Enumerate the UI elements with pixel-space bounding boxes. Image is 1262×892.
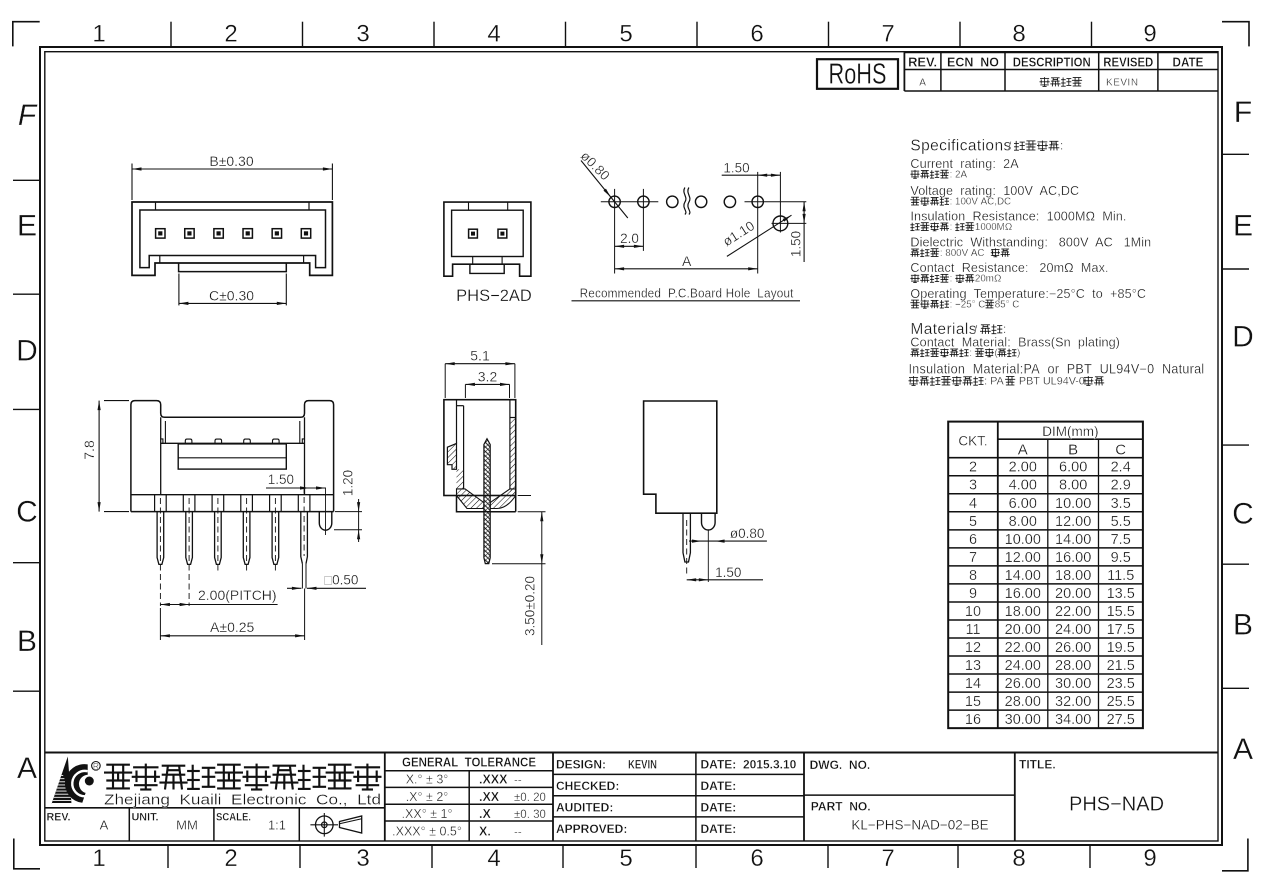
- phs-2ad pin squares: [469, 229, 478, 238]
- side view wall inner edges: [160, 417, 162, 494]
- svg-text:DATE:: DATE:: [701, 822, 737, 836]
- svg-text:UNIT.: UNIT.: [132, 812, 159, 824]
- dim 1.50 right vertical: [803, 202, 805, 262]
- svg-text:REV.: REV.: [908, 55, 937, 69]
- svg-text:): ): [1017, 348, 1020, 359]
- svg-text:23.5: 23.5: [1107, 676, 1135, 692]
- phs-2ad bottom tab: [470, 264, 504, 273]
- front view inner face with notched corners: [140, 210, 326, 268]
- svg-text:34.00: 34.00: [1055, 712, 1091, 728]
- svg-text:E: E: [17, 210, 37, 243]
- dim A±0.25: [159, 608, 161, 640]
- title column: [1014, 753, 1016, 842]
- dim A: [615, 268, 758, 270]
- side view pins 1-5: [157, 512, 164, 565]
- svg-text:28.00: 28.00: [1055, 658, 1091, 674]
- svg-text:5.1: 5.1: [470, 348, 490, 364]
- pcb hole2 vertical: [642, 189, 644, 251]
- CKT DIM table: [948, 422, 1143, 729]
- svg-text:C: C: [16, 496, 38, 529]
- right view body: [644, 401, 717, 513]
- side view latch bumps: [185, 439, 192, 443]
- dim C±0.30: [178, 274, 180, 306]
- section center pin crosshatched: [484, 439, 490, 564]
- svg-text:A±0.25: A±0.25: [210, 619, 254, 635]
- right view flat pin: [683, 513, 690, 562]
- svg-text:9: 9: [1143, 845, 1156, 872]
- svg-text:12: 12: [965, 640, 981, 656]
- svg-text:11.5: 11.5: [1107, 568, 1134, 584]
- svg-text:6: 6: [750, 21, 763, 48]
- svg-text:MM: MM: [176, 818, 198, 833]
- svg-text:D: D: [16, 335, 38, 368]
- top edge zone ticks: [170, 22, 172, 47]
- svg-text:DWG. NO.: DWG. NO.: [810, 758, 871, 772]
- svg-text:6: 6: [750, 845, 763, 872]
- title block frame: [45, 752, 1218, 754]
- svg-text:16.00: 16.00: [1005, 586, 1041, 602]
- svg-text:5.5: 5.5: [1111, 514, 1131, 530]
- svg-text::: :: [950, 222, 955, 233]
- svg-text:C: C: [1232, 498, 1254, 531]
- svg-text:4.00: 4.00: [1009, 478, 1037, 494]
- svg-text:PART NO.: PART NO.: [811, 799, 871, 813]
- svg-text:2: 2: [224, 845, 237, 872]
- svg-text:1: 1: [92, 845, 105, 872]
- svg-text:: 800V AC 1: : 800V AC 1: [940, 248, 996, 259]
- svg-text:1: 1: [92, 21, 105, 48]
- phs-2ad inner face: [452, 210, 524, 256]
- svg-text:±0. 20: ±0. 20: [514, 792, 546, 804]
- svg-text:PBT UL94V-0: PBT UL94V-0: [1016, 376, 1088, 388]
- svg-text:B±0.30: B±0.30: [209, 153, 253, 169]
- svg-text:Specifications: Specifications: [910, 138, 1011, 155]
- dwg/part no column: [803, 753, 805, 842]
- svg-text:DIM(mm): DIM(mm): [1042, 424, 1098, 439]
- svg-text:16.00: 16.00: [1055, 550, 1091, 566]
- side view wall lips: [164, 421, 166, 443]
- section lower block: [457, 496, 516, 512]
- side view tongue: [178, 444, 286, 469]
- first-angle projection symbol: [316, 816, 334, 834]
- pcb hole1 vertical: [614, 189, 616, 274]
- svg-text:CHECKED:: CHECKED:: [556, 779, 619, 793]
- svg-text:9.5: 9.5: [1111, 550, 1131, 566]
- svg-text:E: E: [1233, 210, 1253, 243]
- svg-text:6.00: 6.00: [1009, 496, 1037, 512]
- svg-text:A: A: [1018, 442, 1028, 459]
- section left wall lower hatch: [457, 469, 464, 489]
- svg-text:.X° ± 2°: .X° ± 2°: [406, 790, 449, 804]
- svg-text:1.50: 1.50: [715, 565, 741, 580]
- RoHS logo box: [817, 59, 898, 89]
- svg-text:±0. 30: ±0. 30: [514, 809, 546, 821]
- svg-text:12.00: 12.00: [1055, 514, 1091, 530]
- svg-text:32.00: 32.00: [1055, 694, 1091, 710]
- svg-text:20.00: 20.00: [1055, 586, 1091, 602]
- svg-text:15: 15: [965, 694, 981, 710]
- svg-text:1.50: 1.50: [723, 161, 749, 176]
- svg-text:REV.: REV.: [47, 812, 71, 824]
- svg-text:24.00: 24.00: [1005, 658, 1041, 674]
- svg-text:: PA: : PA: [984, 376, 1007, 388]
- front view top joint lines: [155, 202, 157, 210]
- svg-text:DATE: 2015.3.10: DATE: 2015.3.10: [701, 757, 797, 771]
- svg-text:A: A: [100, 818, 109, 833]
- svg-text:: 2A: : 2A: [950, 170, 968, 181]
- svg-text:SCALE.: SCALE.: [216, 812, 251, 824]
- svg-text:A: A: [1233, 733, 1253, 766]
- pcb crosshair hole 6: [745, 201, 807, 203]
- svg-text:2.0: 2.0: [620, 231, 639, 246]
- svg-text:15.5: 15.5: [1107, 604, 1135, 620]
- design/date column: [695, 753, 697, 842]
- svg-text:Operating Temperature:−25°C: Operating Temperature:−25°C to +85°C: [910, 287, 1146, 301]
- svg-text:8.00: 8.00: [1009, 514, 1037, 530]
- svg-text::: :: [1060, 141, 1063, 153]
- svg-text::: :: [969, 348, 974, 359]
- pcb crosshair lines through holes 1-2: [601, 201, 659, 203]
- svg-text:B: B: [1068, 442, 1078, 459]
- svg-text:14: 14: [965, 676, 981, 692]
- svg-text:8.00: 8.00: [1059, 478, 1087, 494]
- svg-text:85° C: 85° C: [995, 299, 1020, 310]
- phs-2ad outer silhouette: [444, 202, 531, 276]
- svg-text:30.00: 30.00: [1005, 712, 1041, 728]
- svg-text:TITLE.: TITLE.: [1019, 758, 1056, 772]
- front view outer silhouette: [132, 202, 332, 275]
- svg-text:Zhejiang Kuaili Electronic: Zhejiang Kuaili Electronic Co., Ltd: [104, 793, 381, 809]
- svg-text:3.50±0.20: 3.50±0.20: [523, 576, 538, 636]
- svg-text:14.00: 14.00: [1005, 568, 1041, 584]
- dim 1.50 top: [722, 174, 781, 176]
- bottom edge zone ticks: [167, 845, 169, 868]
- svg-text:.X: .X: [479, 807, 491, 821]
- svg-text:10: 10: [965, 604, 981, 620]
- svg-text:26.00: 26.00: [1005, 676, 1041, 692]
- svg-text:RoHS: RoHS: [829, 58, 887, 90]
- front view bottom rail ticks: [159, 256, 161, 264]
- svg-text:5: 5: [619, 845, 632, 872]
- svg-text:Contact Resistance: 20mΩ M: Contact Resistance: 20mΩ Max.: [910, 261, 1108, 275]
- svg-text:APPROVED:: APPROVED:: [556, 822, 627, 836]
- svg-text:28.00: 28.00: [1005, 694, 1041, 710]
- svg-text:1:1: 1:1: [268, 818, 286, 833]
- side view pin 6 with tip extension: [301, 512, 308, 564]
- svg-text:PHS−NAD: PHS−NAD: [1069, 794, 1164, 816]
- svg-text:2: 2: [224, 21, 237, 48]
- svg-text:A: A: [919, 78, 926, 89]
- svg-text:Insulation Resistance: 1000M: Insulation Resistance: 1000MΩ Min.: [910, 210, 1126, 224]
- svg-text:22.00: 22.00: [1055, 604, 1091, 620]
- svg-text:3.5: 3.5: [1111, 496, 1131, 512]
- svg-text:D: D: [1232, 321, 1254, 354]
- corner mark bottom-left: [14, 839, 40, 869]
- front view bottom tab: [179, 263, 287, 272]
- svg-text:DATE:: DATE:: [701, 801, 737, 815]
- svg-text:13.5: 13.5: [1107, 586, 1135, 602]
- svg-text:1000MΩ: 1000MΩ: [975, 222, 1012, 233]
- side view bottom rail lines: [131, 494, 334, 496]
- svg-text:X.° ± 3°: X.° ± 3°: [406, 773, 449, 787]
- svg-text:1.50: 1.50: [268, 472, 294, 487]
- svg-text:KEVIN: KEVIN: [1106, 78, 1139, 89]
- svg-text:25.5: 25.5: [1107, 694, 1135, 710]
- svg-text:F: F: [1234, 96, 1252, 129]
- svg-text:Recommended P.C.Board Hole L: Recommended P.C.Board Hole Layout: [580, 285, 794, 300]
- svg-text:2.9: 2.9: [1111, 478, 1131, 494]
- dim 1.50 side: [266, 487, 326, 489]
- svg-text:1.20: 1.20: [341, 470, 356, 496]
- svg-text:CKT.: CKT.: [958, 433, 987, 448]
- svg-text:18.00: 18.00: [1055, 568, 1091, 584]
- svg-text:9: 9: [1143, 21, 1156, 48]
- svg-text:A: A: [682, 253, 692, 269]
- dim 3.50±0.20: [518, 495, 531, 497]
- phs-2ad pin tails: [472, 257, 474, 265]
- svg-text:: 100V AC,DC: : 100V AC,DC: [950, 197, 1012, 208]
- phs-2ad top joint lines: [468, 202, 470, 210]
- svg-text:4: 4: [487, 21, 500, 48]
- svg-text:17.5: 17.5: [1107, 622, 1135, 638]
- svg-text:22.00: 22.00: [1005, 640, 1041, 656]
- svg-text:9: 9: [969, 586, 977, 602]
- svg-text:C: C: [1115, 442, 1126, 459]
- svg-text:R: R: [93, 761, 99, 771]
- svg-text:7: 7: [881, 845, 894, 872]
- svg-text:DESCRIPTION: DESCRIPTION: [1013, 55, 1091, 69]
- svg-text::: :: [950, 274, 955, 285]
- svg-text:19.5: 19.5: [1107, 640, 1135, 656]
- corner mark top-left: [13, 22, 40, 47]
- dim 2.0: [615, 245, 644, 247]
- svg-text:□0.50: □0.50: [324, 572, 358, 587]
- svg-text:B: B: [17, 625, 37, 658]
- dim 2.00 pitch: [160, 604, 277, 606]
- svg-text:10.00: 10.00: [1055, 496, 1091, 512]
- svg-text:.XX: .XX: [479, 790, 500, 804]
- svg-text:.XX° ± 1°: .XX° ± 1°: [402, 807, 453, 821]
- svg-text:6: 6: [969, 532, 977, 548]
- svg-text:7.8: 7.8: [81, 440, 97, 460]
- svg-text:11: 11: [965, 622, 980, 638]
- svg-text:KL−PHS−NAD−02−BE: KL−PHS−NAD−02−BE: [851, 818, 988, 833]
- svg-text:20.00: 20.00: [1005, 622, 1041, 638]
- svg-text:18.00: 18.00: [1005, 604, 1041, 620]
- dim 1.50 bottom right: [687, 579, 763, 581]
- svg-text:AUDITED:: AUDITED:: [556, 801, 613, 815]
- revision table grid: [904, 51, 1218, 53]
- right edge zone ticks: [1222, 153, 1249, 155]
- svg-text:A: A: [17, 752, 37, 785]
- svg-text:5: 5: [619, 21, 632, 48]
- dim 1.20: [335, 511, 362, 513]
- pcb big hole: [773, 216, 788, 231]
- svg-text:X.: X.: [479, 824, 491, 838]
- svg-text:5: 5: [969, 514, 977, 530]
- general tolerance table: [385, 770, 553, 772]
- svg-text:Contact Material: Brass(Sn: Contact Material: Brass(Sn plating): [910, 335, 1120, 349]
- corner mark top-right: [1222, 22, 1249, 47]
- svg-text:REVISED: REVISED: [1103, 55, 1153, 69]
- svg-text:2.00: 2.00: [1009, 460, 1037, 476]
- svg-text:20mΩ: 20mΩ: [975, 274, 1001, 285]
- front view pin squares: [156, 229, 165, 238]
- side view pin centerlines: [159, 498, 161, 606]
- leader ø0.80: [581, 161, 628, 219]
- company name CJK: [106, 764, 130, 766]
- pcb break symbol: [684, 188, 686, 215]
- svg-text:GENERAL TOLERANCE: GENERAL TOLERANCE: [402, 755, 536, 769]
- svg-text:1.50: 1.50: [789, 231, 804, 257]
- svg-text:26.00: 26.00: [1055, 640, 1091, 656]
- svg-text:PHS−2AD: PHS−2AD: [456, 287, 532, 305]
- svg-text::: :: [1003, 324, 1006, 336]
- svg-text:.XXX: .XXX: [479, 773, 508, 787]
- pcb hole row circles: [609, 196, 620, 207]
- side view boss: [319, 512, 332, 531]
- svg-text:ECN NO: ECN NO: [947, 55, 999, 69]
- svg-text:12.00: 12.00: [1005, 550, 1041, 566]
- svg-text:4: 4: [969, 496, 977, 512]
- svg-text:8: 8: [1012, 21, 1025, 48]
- svg-text:8: 8: [1012, 845, 1025, 872]
- side view shelf line: [161, 442, 305, 444]
- svg-text:2.00(PITCH): 2.00(PITCH): [198, 587, 277, 603]
- svg-text:2: 2: [969, 460, 977, 476]
- svg-text:10.00: 10.00: [1005, 532, 1041, 548]
- section outer box: [444, 400, 516, 496]
- svg-text:DATE: DATE: [1173, 55, 1204, 69]
- svg-text:2.4: 2.4: [1111, 460, 1131, 476]
- svg-text:Insulation Material:PA or P: Insulation Material:PA or PBT UL94V−0 Na…: [909, 362, 1205, 377]
- svg-text:7.5: 7.5: [1111, 532, 1131, 548]
- svg-text:14.00: 14.00: [1055, 532, 1091, 548]
- svg-text:7: 7: [969, 550, 977, 566]
- svg-text:B: B: [1233, 609, 1253, 642]
- dim 3.2: [464, 384, 466, 398]
- corner mark bottom-right: [1222, 839, 1248, 871]
- svg-text:24.00: 24.00: [1055, 622, 1091, 638]
- section funnel hatch: [457, 489, 484, 509]
- left edge zone ticks: [13, 179, 40, 181]
- dim ø0.80 right: [689, 540, 767, 542]
- svg-text:.XXX° ± 0.5°: .XXX° ± 0.5°: [392, 824, 462, 838]
- section cavity right wall: [509, 400, 511, 489]
- svg-text:3: 3: [356, 845, 369, 872]
- svg-text:8: 8: [969, 568, 977, 584]
- svg-text:27.5: 27.5: [1107, 712, 1135, 728]
- registered trademark: [92, 762, 101, 771]
- svg-text:30.00: 30.00: [1055, 676, 1091, 692]
- section cavity left wall: [456, 400, 458, 444]
- svg-text:F: F: [18, 99, 38, 132]
- svg-text:16: 16: [965, 712, 981, 728]
- svg-text:6.00: 6.00: [1059, 460, 1087, 476]
- dim 7.8: [104, 400, 129, 402]
- svg-text:DESIGN:: DESIGN:: [556, 757, 606, 771]
- svg-text:C±0.30: C±0.30: [209, 288, 254, 304]
- svg-text:: −25° C: : −25° C: [950, 299, 989, 310]
- section right wall hatch: [510, 418, 516, 496]
- svg-text:13: 13: [965, 658, 981, 674]
- leader ø1.10: [727, 215, 792, 256]
- svg-text:3.2: 3.2: [478, 368, 498, 384]
- svg-text:3: 3: [356, 21, 369, 48]
- svg-text:KEVIN: KEVIN: [628, 757, 657, 771]
- section left protrusion hatch: [447, 443, 456, 469]
- svg-text:7: 7: [881, 21, 894, 48]
- svg-text:--: --: [514, 775, 522, 787]
- svg-text:ø0.80: ø0.80: [730, 526, 765, 541]
- side view pin blocks: [154, 495, 156, 512]
- dim B±0.30: [131, 164, 133, 201]
- svg-text:3: 3: [969, 478, 977, 494]
- svg-text:--: --: [514, 826, 522, 838]
- side view body outline with interrupted top: [131, 401, 334, 512]
- right view round pin boss: [702, 513, 716, 530]
- dim square 0.50: [287, 587, 301, 589]
- logo crescents and dot: [65, 764, 88, 803]
- svg-text:DATE:: DATE:: [701, 779, 737, 793]
- svg-text:4: 4: [487, 845, 500, 872]
- svg-text:21.5: 21.5: [1107, 658, 1135, 674]
- dim 5.1: [444, 364, 446, 398]
